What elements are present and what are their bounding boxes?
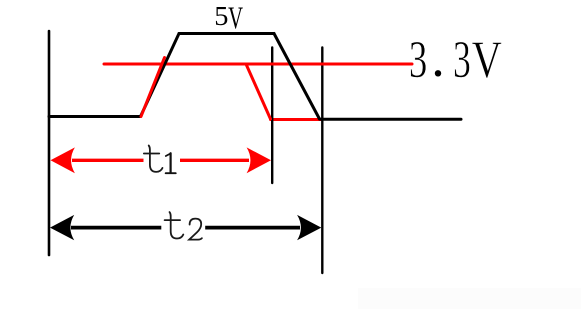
5V waveform low level left segment — [49, 115, 141, 118]
t1 dimension arrow shaft right — [180, 159, 249, 162]
t1 arrowhead left — [51, 147, 75, 173]
t1 label subscript 1 — [166, 153, 176, 173]
left reference line — [48, 31, 51, 255]
background strip bottom right — [358, 288, 581, 309]
3.3V label — [409, 30, 502, 89]
svg-text:3: 3 — [453, 30, 471, 88]
5V waveform low level right segment — [321, 118, 461, 121]
t2 boundary reference line — [321, 48, 323, 274]
t2 arrowhead right — [297, 215, 321, 240]
t1 arrowhead right — [247, 147, 271, 173]
5V label — [214, 0, 243, 35]
t2 dimension arrow shaft left — [71, 226, 161, 230]
3.3V signal low segment — [271, 118, 321, 121]
5V waveform top level — [179, 32, 274, 35]
svg-text:3: 3 — [409, 31, 427, 89]
svg-text:V: V — [228, 0, 243, 35]
5V waveform falling edge — [274, 34, 320, 120]
svg-text:5: 5 — [214, 1, 228, 31]
t2 arrowhead left — [50, 215, 74, 240]
t1 dimension arrow shaft left — [72, 159, 144, 162]
t2 label letter t — [165, 212, 184, 238]
3.3V level line — [104, 63, 412, 66]
t2 label subscript 2 — [189, 219, 202, 240]
t2 dimension arrow shaft right — [205, 226, 300, 230]
3.3V signal falling edge — [246, 64, 271, 119]
t1 label letter t — [144, 146, 163, 172]
5V waveform rising edge — [141, 34, 180, 117]
3.3V signal rising edge — [141, 58, 165, 117]
t1 boundary reference line — [271, 48, 273, 184]
svg-text:V: V — [472, 32, 502, 89]
